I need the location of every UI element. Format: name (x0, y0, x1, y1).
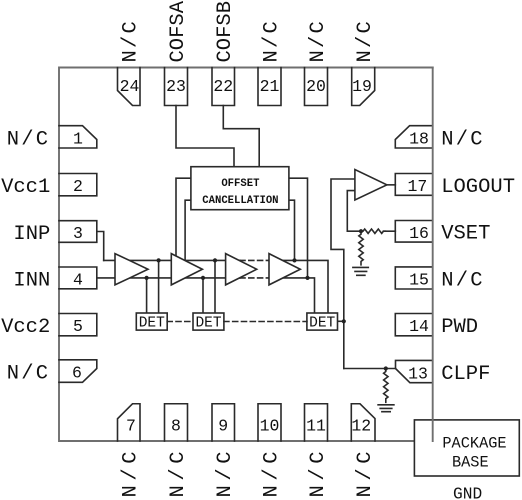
svg-text:Vcc1: Vcc1 (1, 176, 50, 199)
svg-text:17: 17 (407, 177, 427, 196)
ground GND2 below R3 (378, 405, 394, 412)
pin 3 box (59, 221, 97, 243)
svg-text:N/C: N/C (441, 128, 485, 151)
junction node A4 bottom out (305, 276, 309, 280)
pin 5 box (59, 314, 97, 336)
pin 15 box (395, 267, 432, 289)
wire top signal dashed A3-A4 (240, 259, 269, 261)
wire pin23 COFSA to offset block (176, 106, 234, 167)
wire A1 bottom output to DET1 (146, 278, 148, 313)
ground GND1 below R2 (353, 267, 368, 275)
dashed bus DET1 to DET2 (167, 321, 193, 323)
svg-text:N/C: N/C (307, 19, 330, 63)
pin 21 box (258, 68, 281, 106)
pin 11 box (305, 404, 328, 441)
junction node DET3 output (342, 319, 346, 323)
junction node VSET (359, 229, 363, 233)
pin 2 box (59, 174, 97, 196)
resistor R2 VSET shunt (359, 231, 363, 265)
svg-text:13: 13 (408, 365, 428, 384)
junction node A2 top out (213, 258, 217, 262)
svg-text:COFSA: COFSA (167, 0, 190, 62)
label PACKAGE BASE (442, 435, 506, 472)
svg-text:PACKAGE: PACKAGE (442, 435, 506, 453)
svg-text:4: 4 (73, 270, 83, 289)
svg-text:5: 5 (73, 317, 83, 336)
wire pin22 COFSB to offset block (223, 106, 259, 167)
svg-text:11: 11 (306, 417, 326, 436)
dashed bus DET2 to DET3 (224, 321, 307, 323)
svg-text:N/C: N/C (7, 363, 51, 386)
svg-text:Vcc2: Vcc2 (1, 316, 50, 339)
wire A2 bottom output to DET2 (202, 278, 204, 313)
package base box (414, 420, 519, 476)
bottom pin name labels rotated (120, 447, 377, 498)
svg-text:14: 14 (409, 317, 429, 336)
svg-text:PWD: PWD (441, 316, 478, 339)
wire offset block right lower to top signal line (289, 200, 295, 260)
chip body outline (59, 68, 433, 442)
svg-text:VSET: VSET (441, 223, 490, 246)
junction node A4 top out (292, 258, 296, 262)
svg-text:N/C: N/C (214, 447, 237, 498)
pin 24 box (118, 68, 141, 106)
svg-text:N/C: N/C (354, 19, 377, 63)
svg-text:9: 9 (218, 417, 228, 436)
svg-text:DET: DET (309, 315, 335, 331)
svg-text:16: 16 (409, 224, 429, 243)
left side pin name labels (1, 128, 50, 385)
svg-text:22: 22 (213, 77, 233, 96)
wire A2 top output to DET2 (214, 260, 216, 313)
svg-text:N/C: N/C (354, 447, 377, 498)
svg-text:N/C: N/C (307, 447, 330, 498)
offset cancellation block U6 (191, 167, 289, 210)
resistor R3 CLPF shunt (384, 369, 388, 403)
svg-text:6: 6 (72, 364, 82, 383)
svg-text:N/C: N/C (441, 269, 485, 292)
pin 13 box (396, 360, 433, 382)
detector DET2 box (193, 313, 224, 330)
pin 19 box (352, 68, 375, 106)
svg-text:GND: GND (453, 486, 482, 500)
pin 18 box (395, 126, 432, 148)
label OFFSET CANCELLATION (202, 178, 278, 207)
svg-text:COFSB: COFSB (214, 1, 237, 63)
wire log amp U5 input net (331, 179, 355, 369)
amplifier U1 gain stage 1 (115, 254, 148, 285)
svg-text:LOGOUT: LOGOUT (441, 176, 515, 199)
svg-text:DET: DET (195, 315, 221, 331)
pin 16 box (395, 221, 432, 243)
right side pin name labels (441, 128, 515, 386)
svg-text:CLPF: CLPF (441, 363, 490, 386)
pin 23 box (165, 68, 188, 106)
pin 8 box (165, 404, 188, 441)
pin 1 box (59, 126, 97, 148)
svg-text:2: 2 (73, 177, 83, 196)
wire CLPF node to pin13 (344, 368, 396, 370)
wire top signal A4 to DET3 (269, 260, 328, 312)
detector DET3 box (307, 313, 338, 330)
pin 22 box (212, 68, 235, 106)
junction node A2 bottom out (201, 276, 205, 280)
pin 9 box (212, 404, 235, 441)
wire R1 to pin16 VSET (383, 230, 395, 232)
wire log amp U5 output to pin17 LOGOUT (387, 184, 395, 186)
wire log amp U5 feedback to VSET node (347, 191, 361, 232)
wire offset block left upper to amp U2 (176, 178, 191, 256)
wire top signal line A1-A3 (104, 259, 240, 261)
svg-text:1: 1 (73, 129, 83, 148)
svg-text:19: 19 (352, 77, 372, 96)
wire DET3 output stub (338, 320, 344, 322)
detector DET1 box (136, 313, 167, 330)
chip right border over package base (432, 68, 434, 442)
wire A1 top output to DET1 (158, 260, 160, 313)
wire bottom signal line pin4 INN to A3 (97, 277, 240, 279)
wire bottom signal A4 to DET3 (269, 278, 315, 313)
junction node CLPF (384, 366, 388, 370)
svg-text:15: 15 (409, 271, 429, 290)
top pin name labels rotated (120, 0, 377, 62)
pin 6 box (59, 360, 97, 383)
wire offset block left lower to amp U2 (185, 200, 191, 261)
svg-text:N/C: N/C (120, 447, 143, 498)
svg-text:20: 20 (306, 77, 326, 96)
pin 10 box (258, 404, 281, 441)
svg-text:OFFSET: OFFSET (221, 178, 260, 190)
svg-text:8: 8 (171, 417, 181, 436)
svg-text:N/C: N/C (7, 128, 51, 151)
pin 12 box (351, 404, 375, 441)
svg-text:N/C: N/C (261, 19, 284, 63)
amplifier U2 gain stage 2 (171, 254, 202, 285)
svg-text:21: 21 (260, 77, 280, 96)
junction node A1 top out (157, 258, 161, 262)
svg-text:10: 10 (260, 417, 280, 436)
svg-text:12: 12 (351, 417, 371, 436)
svg-text:24: 24 (120, 77, 140, 96)
svg-text:CANCELLATION: CANCELLATION (202, 195, 278, 207)
svg-text:23: 23 (166, 77, 186, 96)
pin 7 box (118, 404, 141, 441)
svg-text:N/C: N/C (167, 447, 190, 498)
amplifier U3 gain stage 3 (226, 254, 257, 285)
wire bottom signal dashed A3-A4 (240, 277, 269, 279)
svg-text:N/C: N/C (120, 19, 143, 63)
pin 4 box (59, 267, 97, 289)
svg-text:DET: DET (139, 315, 165, 331)
pin 14 box (395, 314, 432, 336)
pin 17 box (395, 174, 432, 196)
svg-text:N/C: N/C (261, 447, 284, 498)
svg-text:3: 3 (73, 224, 83, 243)
pin numbers top row (72, 77, 429, 436)
wire offset block right upper to bottom signal line (289, 178, 308, 278)
svg-text:INP: INP (13, 223, 50, 246)
amplifier U4 gain stage 4 (269, 254, 300, 285)
resistor R1 VSET series (361, 229, 385, 233)
wire pin3 INP to amp U1 top input (97, 232, 104, 261)
svg-text:18: 18 (409, 130, 429, 149)
svg-text:BASE: BASE (452, 454, 489, 472)
svg-text:INN: INN (13, 269, 50, 292)
pin 20 box (305, 68, 328, 106)
op-amp U5 output buffer (355, 170, 387, 201)
svg-text:7: 7 (126, 417, 136, 436)
junction node A1 bottom out (145, 276, 149, 280)
